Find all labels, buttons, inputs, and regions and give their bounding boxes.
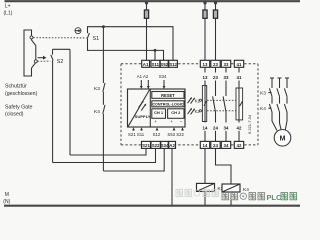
svg-text:RESET: RESET bbox=[161, 93, 175, 98]
svg-text:33: 33 bbox=[224, 62, 229, 67]
contact 33-34 bbox=[223, 67, 229, 141]
safety relay unit dashed border bbox=[121, 64, 258, 145]
terminal S52 bbox=[160, 60, 168, 67]
arrow S34 into module bbox=[163, 80, 166, 89]
svg-text:(L1): (L1) bbox=[4, 10, 13, 16]
svg-text:SUPPLY: SUPPLY bbox=[135, 114, 151, 119]
svg-text:A2: A2 bbox=[169, 143, 175, 148]
svg-text:L+: L+ bbox=[5, 4, 11, 10]
switch S2 (NC gate contact, channel 2) bbox=[51, 49, 53, 162]
svg-text:S52: S52 bbox=[160, 62, 168, 67]
actuator symbol (circle with arrow) near S1 bbox=[75, 28, 81, 34]
terminal 14 bbox=[200, 141, 209, 148]
svg-text:41: 41 bbox=[237, 62, 242, 67]
watermark echo (faint) bbox=[176, 189, 219, 196]
terminal S34 bbox=[161, 141, 169, 148]
svg-text:S53 S22: S53 S22 bbox=[167, 132, 184, 137]
label K3 (contactor) bbox=[260, 90, 272, 96]
arrow S12 into module bottom bbox=[156, 127, 159, 130]
wire x70 branch to S21 bbox=[70, 148, 146, 155]
contact 13-14 bbox=[202, 67, 208, 141]
channel 2 block bbox=[168, 109, 184, 119]
terminal A1 bbox=[142, 60, 150, 67]
contactor coil K4 bbox=[222, 184, 240, 192]
mechanical link gate to S2 (dashed) bbox=[38, 60, 51, 62]
svg-text:CH 2: CH 2 bbox=[171, 110, 181, 115]
wire S21 branch bbox=[69, 49, 71, 155]
fuse F3 supply to 23 bbox=[213, 1, 217, 60]
svg-text:M: M bbox=[280, 136, 286, 143]
wire 14 to contactor coil K3 bbox=[204, 148, 206, 183]
svg-text:A1: A1 bbox=[143, 62, 149, 67]
wire S2 bottom to S22 bbox=[53, 148, 156, 162]
contactor K4 main contacts bbox=[269, 96, 287, 112]
svg-text:S34: S34 bbox=[159, 74, 167, 79]
mechanical link K2 (dashed) bbox=[199, 110, 201, 112]
gate pivot (upper) bbox=[30, 36, 33, 39]
motor M bbox=[274, 130, 291, 147]
supply/logic divider bbox=[149, 89, 151, 127]
terminal 23 bbox=[211, 60, 220, 67]
L+ supply rail bbox=[5, 0, 301, 2]
contact K4 (NC aux) bbox=[103, 105, 105, 114]
svg-text:(N): (N) bbox=[3, 199, 10, 205]
svg-text:S21: S21 bbox=[142, 143, 150, 148]
contact 23-24 bbox=[213, 67, 219, 141]
arrow S22 into module bottom bbox=[181, 127, 184, 130]
svg-text:S11: S11 bbox=[152, 62, 160, 67]
svg-text:K3: K3 bbox=[94, 86, 100, 92]
svg-text:41: 41 bbox=[237, 75, 242, 80]
svg-text:23: 23 bbox=[213, 75, 218, 80]
wire coil K4 to rail bbox=[230, 192, 232, 205]
jumper wire S2 top bbox=[53, 48, 71, 50]
svg-text:13: 13 bbox=[203, 75, 208, 80]
supply block diagonal bbox=[128, 90, 149, 127]
wire A2 to return rail bbox=[171, 148, 173, 205]
terminal S12 bbox=[169, 60, 178, 67]
relay internal module box bbox=[128, 89, 186, 127]
svg-text:CH 1: CH 1 bbox=[154, 110, 164, 115]
fuse F1 supply to A1 bbox=[144, 1, 148, 60]
fuse F2 supply to 13 bbox=[203, 1, 207, 60]
terminal 33 bbox=[221, 60, 230, 67]
svg-text:42: 42 bbox=[237, 143, 242, 148]
svg-text:14: 14 bbox=[203, 126, 208, 131]
label K4 (contactor) bbox=[260, 106, 272, 112]
terminal A2 bbox=[169, 141, 176, 148]
wire down to S34 bbox=[102, 114, 104, 171]
watermark main bbox=[222, 193, 297, 202]
svg-text:S21 S11: S21 S11 bbox=[128, 132, 145, 137]
svg-text:A1 A2: A1 A2 bbox=[137, 74, 149, 79]
terminal S22 bbox=[151, 141, 160, 148]
svg-text:S2: S2 bbox=[57, 59, 64, 65]
svg-text:Safety Gate: Safety Gate bbox=[5, 104, 33, 110]
svg-text:S34: S34 bbox=[161, 143, 169, 148]
svg-text:23: 23 bbox=[213, 62, 218, 67]
arrow A1 into module bbox=[140, 80, 143, 89]
terminal 41 bbox=[234, 60, 243, 67]
svg-text:K3: K3 bbox=[260, 90, 266, 96]
wire coil K3 to rail bbox=[204, 191, 206, 205]
svg-text:Schutztür: Schutztür bbox=[5, 84, 27, 90]
contact 41-42 (NC with fuse box) bbox=[236, 67, 243, 141]
control logic block bbox=[152, 101, 184, 107]
svg-text:(geschlossen): (geschlossen) bbox=[5, 91, 38, 97]
svg-text:K4: K4 bbox=[260, 106, 266, 112]
motor branch phase ticks bbox=[270, 77, 289, 79]
svg-text:S12: S12 bbox=[169, 62, 177, 67]
channel 1 block bbox=[152, 109, 166, 119]
svg-text:M: M bbox=[5, 192, 9, 198]
arrow S53 into module bottom bbox=[173, 127, 176, 130]
svg-text:42: 42 bbox=[237, 126, 242, 131]
svg-text:S22: S22 bbox=[152, 143, 160, 148]
relay K1 coil symbol bbox=[188, 97, 195, 104]
arrow S21 into module bottom bbox=[132, 127, 135, 130]
actuation direction arrow at S2 bbox=[38, 56, 47, 60]
terminal S21 bbox=[142, 141, 151, 148]
terminal S11 bbox=[151, 60, 160, 67]
relay K2 coil symbol bbox=[188, 108, 195, 115]
contact K3 (NC aux) bbox=[103, 83, 105, 92]
svg-text:14: 14 bbox=[203, 143, 208, 148]
motor feed wires bbox=[272, 112, 287, 131]
supply isolation arrows bbox=[139, 101, 147, 111]
wire S1 bottom to S52 bbox=[88, 50, 164, 60]
switch S1 (NC gate contact, channel 1) bbox=[87, 26, 89, 51]
terminal 13 bbox=[200, 60, 209, 67]
mechanical link gate to S1 (dashed) bbox=[33, 37, 86, 39]
svg-text:K4: K4 bbox=[243, 187, 249, 193]
wire feedback to S34 bbox=[103, 148, 164, 171]
svg-text:13: 13 bbox=[203, 62, 208, 67]
arrow A2 into module bbox=[147, 80, 150, 89]
svg-text:PLC: PLC bbox=[267, 193, 282, 202]
svg-text:CONTROL-LOGIC: CONTROL-LOGIC bbox=[152, 102, 183, 106]
svg-text:34: 34 bbox=[224, 126, 229, 131]
svg-text:(closed): (closed) bbox=[5, 112, 24, 118]
svg-text:6.221-7.34: 6.221-7.34 bbox=[247, 114, 252, 134]
wire 24 to contactor coil K4 bbox=[216, 148, 232, 184]
terminal 42 bbox=[234, 141, 243, 148]
safety gate symbol bbox=[24, 30, 36, 76]
svg-text:33: 33 bbox=[224, 75, 229, 80]
contactor coil K3 bbox=[197, 183, 215, 191]
node junction on S1 top wire bbox=[102, 25, 105, 28]
svg-text:S12: S12 bbox=[153, 132, 161, 137]
wire junction down to S11 bbox=[154, 50, 156, 60]
svg-text:S1: S1 bbox=[93, 36, 100, 42]
reset block bbox=[152, 92, 184, 99]
arrow S11 into module bottom bbox=[140, 127, 143, 130]
svg-text:24: 24 bbox=[213, 143, 218, 148]
wire bbox=[102, 92, 104, 105]
gate pivot (lower) bbox=[34, 60, 37, 63]
mechanical link K1 (dashed) bbox=[199, 99, 201, 101]
contactor K3 main contacts bbox=[269, 78, 287, 96]
wire S1 top to S12 bbox=[88, 27, 174, 61]
M (N) return rail bbox=[4, 205, 300, 207]
svg-text:K4: K4 bbox=[94, 109, 100, 115]
svg-text:24: 24 bbox=[213, 126, 218, 131]
feedback wire with K3 K4 contacts bbox=[102, 27, 104, 83]
terminal 24 bbox=[211, 141, 220, 148]
terminal 34 bbox=[221, 141, 230, 148]
node junction to S11 bbox=[154, 49, 157, 52]
svg-text:34: 34 bbox=[224, 143, 229, 148]
